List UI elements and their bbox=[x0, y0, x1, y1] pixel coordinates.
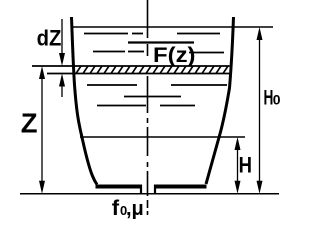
svg-text:F(z): F(z) bbox=[153, 43, 196, 66]
node orifice right lip bbox=[154, 185, 156, 194]
dimension H vertical line with two arrows bbox=[235, 137, 241, 194]
dimension H0 vertical line with two arrows bbox=[257, 27, 263, 194]
svg-text:f: f bbox=[112, 196, 120, 219]
node vessel bottom plate left bbox=[96, 185, 143, 189]
dimension dZ lower line with up arrow bbox=[59, 74, 65, 98]
wire: lower liquid level line H bbox=[80, 136, 245, 138]
svg-text:,μ: ,μ bbox=[126, 198, 144, 220]
svg-text:Z: Z bbox=[21, 107, 38, 138]
node orifice left lip bbox=[140, 185, 142, 194]
node vessel left wall bbox=[72, 17, 98, 185]
wire: initial liquid level line H0 bbox=[73, 26, 273, 28]
dimension Z vertical line with two arrows bbox=[39, 66, 45, 194]
node axis: vessel centerline (dash-dot) bbox=[147, 0, 149, 215]
node water surface dashes bbox=[84, 34, 227, 106]
dimension dZ upper line with down arrow bbox=[59, 19, 65, 66]
node vessel right wall bbox=[206, 17, 234, 184]
node F(z) slice: hatched band bbox=[32, 66, 230, 74]
wire: band top edge + extension line bbox=[32, 65, 230, 67]
svg-text:H: H bbox=[239, 154, 252, 178]
wire: ground / datum line bbox=[20, 193, 279, 195]
wire: band bottom edge + extension line bbox=[47, 73, 230, 75]
svg-text:0: 0 bbox=[273, 92, 281, 108]
svg-text:dZ: dZ bbox=[37, 27, 62, 51]
node vessel bottom plate right bbox=[154, 185, 207, 189]
